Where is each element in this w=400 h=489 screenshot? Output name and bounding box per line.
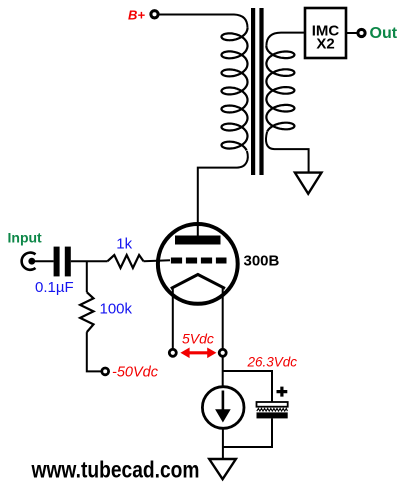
- transformer T1 secondary winding: [266, 46, 294, 132]
- terminal filament pin left: [169, 349, 176, 356]
- label IMC X2: [312, 23, 340, 53]
- svg-text:-50Vdc: -50Vdc: [112, 364, 159, 380]
- wire jack to capacitor C1: [33, 260, 54, 262]
- svg-text:300B: 300B: [244, 252, 280, 269]
- svg-text:B+: B+: [128, 8, 145, 23]
- current source I1: [202, 387, 244, 429]
- wire C1 to junction to R1: [71, 260, 108, 262]
- transformer T1 primary winding: [222, 28, 248, 151]
- svg-text:0.1µF: 0.1µF: [35, 279, 74, 296]
- capacitor C1 0.1uF: [54, 247, 71, 277]
- resistor R2 100k: [80, 292, 93, 332]
- svg-text:Out: Out: [370, 25, 398, 42]
- svg-text:5Vdc: 5Vdc: [182, 331, 214, 347]
- wire B+ to primary: [158, 15, 247, 28]
- svg-text:Input: Input: [8, 230, 43, 246]
- wire junction down to R2: [86, 261, 88, 292]
- wire secondary bottom to ground: [266, 132, 309, 172]
- input jack: [22, 253, 36, 270]
- wire box to Out terminal: [346, 32, 357, 34]
- wire capacitor bottom: [223, 418, 272, 447]
- terminal Out: [358, 29, 365, 36]
- terminal B+: [151, 11, 158, 18]
- transformer core: [251, 8, 264, 175]
- ground (secondary): [295, 173, 322, 194]
- svg-text:100k: 100k: [100, 300, 133, 317]
- svg-text:1k: 1k: [116, 235, 132, 252]
- wire current source bottom to ground: [222, 429, 224, 458]
- plate of 300B: [175, 236, 221, 245]
- box IMC X2: [305, 8, 346, 58]
- svg-text:X2: X2: [316, 36, 334, 53]
- wire R2 to -50Vdc terminal: [87, 332, 101, 371]
- ground (bottom): [209, 459, 236, 479]
- svg-text:26.3Vdc: 26.3Vdc: [247, 354, 298, 369]
- resistor R1 1k: [108, 255, 144, 268]
- wire primary bottom to plate: [198, 151, 248, 236]
- wire to capacitor top: [223, 371, 272, 402]
- terminal -50Vdc: [102, 368, 109, 375]
- wire secondary top to IMC box: [266, 33, 305, 46]
- grid of 300B (dashed): [171, 258, 227, 264]
- terminal filament pin right: [219, 349, 226, 356]
- filament of 300B: [171, 275, 225, 289]
- arrow 5Vdc measurement: [180, 348, 216, 359]
- capacitor C2 (polarized): [257, 387, 288, 419]
- filament lead left: [172, 287, 174, 348]
- filament lead right: [222, 287, 224, 348]
- wire right pin to current source: [222, 357, 224, 386]
- wire R1 to grid: [144, 259, 171, 262]
- svg-text:www.tubecad.com: www.tubecad.com: [31, 456, 200, 482]
- tube 300B envelope: [158, 224, 238, 304]
